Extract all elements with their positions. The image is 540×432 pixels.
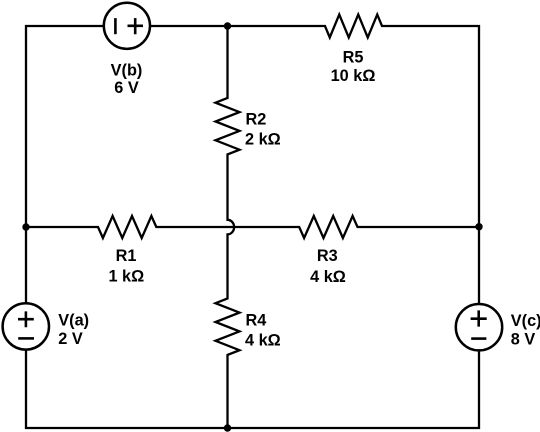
svg-text:V(b): V(b): [111, 61, 143, 79]
svg-text:R1: R1: [116, 247, 137, 265]
svg-text:6 V: 6 V: [114, 79, 139, 97]
svg-text:2 kΩ: 2 kΩ: [245, 130, 281, 148]
svg-text:R3: R3: [317, 247, 338, 265]
svg-text:4 kΩ: 4 kΩ: [310, 268, 346, 286]
svg-text:1 kΩ: 1 kΩ: [108, 268, 144, 286]
svg-text:R5: R5: [343, 49, 364, 67]
svg-text:10 kΩ: 10 kΩ: [331, 67, 376, 85]
svg-text:V(a): V(a): [58, 312, 89, 330]
svg-text:R4: R4: [246, 311, 267, 329]
svg-text:4 kΩ: 4 kΩ: [245, 331, 281, 349]
svg-text:8 V: 8 V: [511, 330, 536, 348]
svg-text:V(c): V(c): [511, 312, 540, 330]
svg-text:2 V: 2 V: [58, 330, 83, 348]
svg-text:R2: R2: [246, 110, 267, 128]
